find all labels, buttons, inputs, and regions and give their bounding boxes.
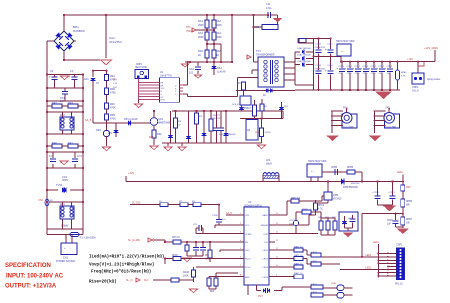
svg-text:LED8064-SOP16: LED8064-SOP16 bbox=[244, 206, 262, 208]
svg-text:RA3B: RA3B bbox=[311, 260, 317, 263]
svg-text:RF9: RF9 bbox=[210, 291, 215, 293]
svg-text:PC3: PC3 bbox=[258, 296, 263, 298]
svg-text:CLK: CLK bbox=[264, 242, 269, 244]
svg-text:TVS1: TVS1 bbox=[56, 183, 63, 187]
svg-text:VCC: VCC bbox=[245, 225, 250, 227]
svg-text:OVP: OVP bbox=[263, 234, 268, 236]
svg-text:SL_D15: SL_D15 bbox=[132, 203, 141, 205]
svg-text:C11: C11 bbox=[266, 3, 271, 6]
svg-text:TP1: TP1 bbox=[186, 26, 191, 29]
svg-text:FS1: FS1 bbox=[39, 199, 44, 202]
svg-text:RA2B: RA2B bbox=[311, 251, 317, 254]
svg-text:RA21 10: RA21 10 bbox=[294, 254, 303, 257]
svg-text:+12V_MAIN: +12V_MAIN bbox=[424, 46, 438, 50]
svg-text:SPB1: SPB1 bbox=[331, 283, 337, 285]
svg-text:RPC4: RPC4 bbox=[318, 205, 325, 207]
svg-text:RA2: RA2 bbox=[216, 20, 221, 23]
svg-text:U3: U3 bbox=[248, 200, 252, 204]
svg-text:LL4148: LL4148 bbox=[217, 71, 226, 74]
svg-text:ZP1: ZP1 bbox=[108, 132, 113, 135]
svg-text:470K: 470K bbox=[110, 107, 116, 110]
svg-text:RF1: RF1 bbox=[68, 141, 73, 145]
svg-text:DP1 LL4148: DP1 LL4148 bbox=[124, 118, 138, 121]
svg-text:+CPL8: +CPL8 bbox=[372, 192, 380, 194]
svg-text:RA4: RA4 bbox=[216, 32, 221, 35]
svg-text:Freq(KHz)=6*813/Rosc(kΩ): Freq(KHz)=6*813/Rosc(kΩ) bbox=[91, 270, 151, 275]
svg-text:CY2: CY2 bbox=[77, 155, 82, 158]
svg-text:R10: R10 bbox=[406, 186, 411, 189]
svg-text:C12B: C12B bbox=[212, 215, 218, 217]
svg-text:470K: 470K bbox=[110, 92, 116, 95]
svg-text:DP5: DP5 bbox=[149, 137, 154, 139]
svg-text:+ -: + - bbox=[341, 49, 344, 53]
svg-text:C2A3: C2A3 bbox=[316, 64, 322, 67]
svg-text:LNK6777K: LNK6777K bbox=[160, 74, 172, 77]
svg-text:RCLK: RCLK bbox=[245, 259, 251, 261]
svg-text:200K: 200K bbox=[198, 36, 204, 39]
svg-text:DPB B5819W: DPB B5819W bbox=[343, 186, 358, 189]
svg-text:4.7K: 4.7K bbox=[401, 76, 406, 78]
svg-text:VCC: VCC bbox=[161, 88, 166, 90]
svg-text:200K: 200K bbox=[198, 24, 204, 27]
svg-text:INPUT: 100-240V AC: INPUT: 100-240V AC bbox=[6, 274, 64, 280]
svg-text:RA3: RA3 bbox=[198, 32, 203, 35]
svg-text:RA6 1K: RA6 1K bbox=[172, 236, 180, 239]
svg-text:+CPL9: +CPL9 bbox=[388, 192, 396, 194]
svg-text:SL_O: SL_O bbox=[126, 279, 132, 282]
svg-text:QPB: QPB bbox=[333, 194, 338, 197]
svg-text:REF: REF bbox=[245, 277, 250, 279]
svg-text:RPS: RPS bbox=[255, 132, 260, 134]
svg-text:RF06: RF06 bbox=[172, 255, 178, 257]
svg-text:LED+: LED+ bbox=[397, 171, 404, 174]
svg-text:DC12 FAN: DC12 FAN bbox=[343, 125, 354, 128]
svg-text:470uF/25V: 470uF/25V bbox=[315, 47, 326, 49]
svg-text:C3: C3 bbox=[70, 69, 74, 73]
svg-text:100K: 100K bbox=[183, 276, 189, 278]
svg-text:D2A1 SB2040: D2A1 SB2040 bbox=[297, 47, 312, 50]
svg-text:C2A4: C2A4 bbox=[327, 64, 333, 67]
svg-text:1K: 1K bbox=[216, 54, 219, 57]
svg-text:200K: 200K bbox=[216, 24, 222, 27]
svg-text:POWER SOCKET: POWER SOCKET bbox=[56, 260, 76, 263]
svg-text:4.7K: 4.7K bbox=[318, 209, 323, 211]
svg-text:RF0: RF0 bbox=[52, 141, 57, 145]
svg-text:EN: EN bbox=[245, 242, 248, 244]
svg-text:LED4: LED4 bbox=[263, 277, 269, 279]
svg-text:AMP1: AMP1 bbox=[136, 63, 143, 66]
svg-text:+ -: + - bbox=[311, 169, 314, 173]
svg-text:RPB7: RPB7 bbox=[406, 219, 413, 221]
svg-text:RA41 10: RA41 10 bbox=[294, 272, 303, 275]
svg-text:RC1: RC1 bbox=[237, 83, 242, 85]
svg-text:RTN: RTN bbox=[161, 100, 166, 102]
svg-text:470u: 470u bbox=[347, 73, 353, 75]
svg-text:HY3410: HY3410 bbox=[333, 199, 342, 201]
svg-text:SL_D+15F: SL_D+15F bbox=[128, 239, 140, 242]
svg-text:470u: 470u bbox=[371, 73, 377, 75]
svg-text:RA1Q: RA1Q bbox=[311, 283, 317, 286]
svg-text:D3SBC6: D3SBC6 bbox=[73, 29, 85, 33]
svg-text:60uH: 60uH bbox=[266, 163, 272, 166]
svg-text:102: 102 bbox=[189, 72, 194, 75]
svg-text:HEAT SINK: HEAT SINK bbox=[135, 66, 147, 69]
svg-text:SA_B: SA_B bbox=[85, 119, 92, 122]
svg-text:D2A2 SB2040: D2A2 SB2040 bbox=[297, 54, 312, 57]
svg-text:10K: 10K bbox=[406, 223, 411, 225]
svg-text:B5819W: B5819W bbox=[351, 183, 360, 185]
svg-text:RF3: RF3 bbox=[68, 101, 73, 105]
svg-text:+12V: +12V bbox=[128, 171, 134, 175]
svg-text:470u: 470u bbox=[355, 73, 361, 75]
svg-text:LED3: LED3 bbox=[263, 267, 269, 269]
svg-text:GATE: GATE bbox=[262, 214, 268, 217]
svg-text:-: - bbox=[70, 246, 71, 250]
svg-text:CPA2: CPA2 bbox=[387, 65, 393, 68]
svg-text:COMP: COMP bbox=[245, 234, 252, 236]
svg-text:TP1: TP1 bbox=[256, 49, 261, 53]
svg-text:474p: 474p bbox=[266, 7, 272, 10]
svg-text:104T: 104T bbox=[289, 224, 295, 226]
svg-text:SA1-2 A-SMD(B): SA1-2 A-SMD(B) bbox=[219, 133, 236, 136]
svg-text:OUTPUT: +12V/3A: OUTPUT: +12V/3A bbox=[5, 284, 57, 290]
svg-text:1.9kW: 1.9kW bbox=[61, 224, 69, 228]
svg-text:PIN_10: PIN_10 bbox=[395, 284, 403, 286]
svg-text:750mV: 750mV bbox=[186, 30, 194, 33]
svg-text:DC12 FAN: DC12 FAN bbox=[386, 125, 397, 128]
svg-text:ON_O: ON_O bbox=[412, 90, 419, 93]
svg-text:470u: 470u bbox=[363, 73, 369, 75]
svg-text:RPB5: RPB5 bbox=[347, 167, 354, 169]
svg-text:RA5: RA5 bbox=[198, 50, 203, 53]
svg-text:0.5(1W): 0.5(1W) bbox=[263, 132, 271, 134]
svg-text:350V: 350V bbox=[62, 178, 68, 182]
svg-text:RA1: RA1 bbox=[198, 20, 203, 23]
svg-text:LED1: LED1 bbox=[263, 250, 269, 252]
svg-text:RA1B: RA1B bbox=[183, 271, 189, 274]
svg-text:RA11 10: RA11 10 bbox=[294, 246, 303, 249]
svg-text:CPB1: CPB1 bbox=[387, 220, 394, 222]
svg-text:PCLK: PCLK bbox=[245, 267, 251, 269]
svg-text:CPC2: CPC2 bbox=[289, 220, 296, 222]
svg-text:Rise=20(kΩ): Rise=20(kΩ) bbox=[89, 280, 117, 285]
svg-text:RPB8: RPB8 bbox=[302, 209, 308, 211]
svg-text:200K: 200K bbox=[216, 36, 222, 39]
svg-text:CPB5: CPB5 bbox=[331, 167, 338, 169]
svg-text:C2A2: C2A2 bbox=[327, 43, 333, 46]
svg-text:RPB 100: RPB 100 bbox=[291, 198, 301, 200]
svg-text:470K: 470K bbox=[110, 118, 116, 121]
svg-text:ZA1: ZA1 bbox=[84, 78, 89, 81]
svg-text:VIN: VIN bbox=[245, 215, 249, 217]
svg-text:CNP1: CNP1 bbox=[396, 244, 403, 247]
svg-text:474/275V: 474/275V bbox=[109, 40, 122, 44]
svg-text:Vovp(V)=1.23(1+Rhigh/Rlow): Vovp(V)=1.23(1+Rhigh/Rlow) bbox=[89, 263, 154, 268]
svg-text:RF2: RF2 bbox=[52, 101, 57, 105]
svg-text:HSP1 HEAT SINK: HSP1 HEAT SINK bbox=[336, 40, 355, 43]
svg-text:1uF: 1uF bbox=[387, 224, 392, 226]
svg-text:OSC: OSC bbox=[245, 250, 250, 252]
svg-text:TRANSFORMER: TRANSFORMER bbox=[256, 54, 275, 57]
svg-text:dying socket: dying socket bbox=[427, 78, 441, 81]
svg-text:NR1: NR1 bbox=[96, 129, 102, 132]
svg-text:F1 3.15A/250V: F1 3.15A/250V bbox=[80, 237, 96, 240]
svg-text:R-O: R-O bbox=[144, 279, 149, 282]
svg-text:MMBT3904: MMBT3904 bbox=[158, 122, 171, 125]
svg-text:C2: C2 bbox=[50, 69, 54, 73]
svg-text:SENSE: SENSE bbox=[261, 225, 269, 227]
svg-text:LED2: LED2 bbox=[263, 259, 269, 261]
svg-text:SPECIFICATION: SPECIFICATION bbox=[5, 263, 51, 269]
svg-text:R22: R22 bbox=[157, 133, 162, 136]
svg-text:RPB6: RPB6 bbox=[406, 201, 413, 203]
svg-text:HSP2 HEAT SINK: HSP2 HEAT SINK bbox=[308, 160, 327, 163]
svg-text:RA1R: RA1R bbox=[311, 291, 317, 294]
svg-text:C74|C73: C74|C73 bbox=[211, 115, 220, 117]
svg-text:C2A1: C2A1 bbox=[316, 43, 322, 46]
svg-text:470uF/25V: 470uF/25V bbox=[315, 69, 326, 71]
svg-text:RPA1: RPA1 bbox=[401, 71, 407, 74]
svg-text:ILed(mA)=R10*1.22(V)/Risen(kΩ): ILed(mA)=R10*1.22(V)/Risen(kΩ) bbox=[89, 255, 164, 260]
svg-text:222|470P: 222|470P bbox=[211, 118, 221, 120]
svg-text:+12V: +12V bbox=[407, 58, 413, 61]
svg-text:CY1: CY1 bbox=[49, 155, 54, 158]
svg-text:D2A3 SB2040: D2A3 SB2040 bbox=[297, 60, 312, 63]
svg-text:U2 PC817: U2 PC817 bbox=[240, 107, 252, 110]
svg-text:1K: 1K bbox=[198, 54, 201, 57]
svg-text:LED+: LED+ bbox=[373, 241, 380, 244]
svg-text:RA31 10: RA31 10 bbox=[294, 263, 303, 266]
